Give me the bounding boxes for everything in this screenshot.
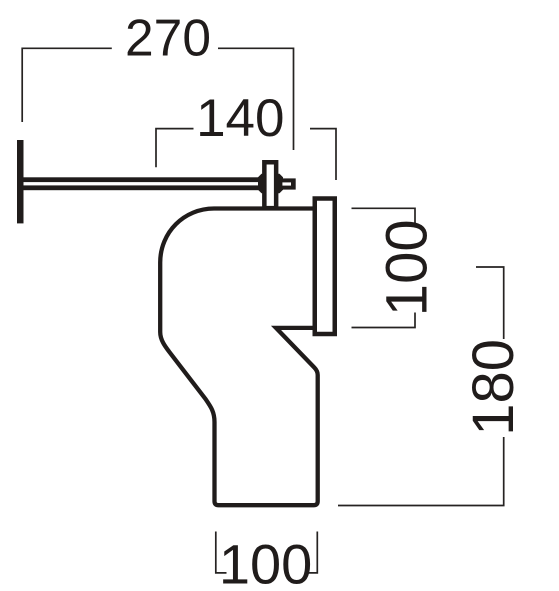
fixing rod upper line xyxy=(24,177,263,182)
elbow body outline xyxy=(160,209,318,506)
fixing rod lower line xyxy=(24,185,263,190)
gland collar xyxy=(258,174,283,193)
dimension 140 bracket xyxy=(156,129,336,180)
gland disc xyxy=(264,162,276,208)
svg-text:100: 100 xyxy=(219,532,312,591)
dimension 100 bracket (bottom) xyxy=(216,532,317,573)
svg-text:140: 140 xyxy=(196,89,284,148)
svg-text:180: 180 xyxy=(461,339,526,436)
dimension 270 bracket xyxy=(22,48,293,150)
wall flange plate xyxy=(17,140,24,223)
outlet socket flange xyxy=(315,199,335,335)
gland spigot slot xyxy=(282,182,291,185)
dimension 100 bracket (outlet) xyxy=(352,208,416,327)
svg-text:100: 100 xyxy=(375,219,440,316)
gland spigot nub xyxy=(282,178,295,189)
svg-text:270: 270 xyxy=(125,9,211,67)
dimension 180 bracket xyxy=(338,267,504,506)
